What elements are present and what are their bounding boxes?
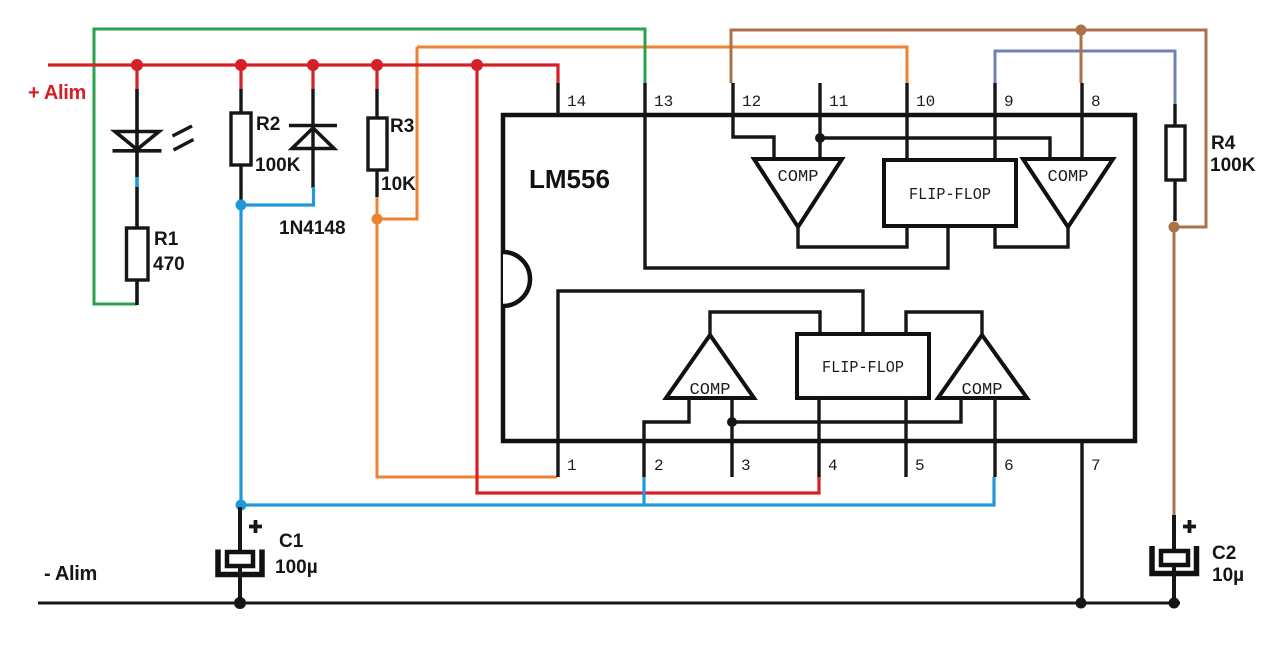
- wire pin 3 branch to comp D base: [732, 398, 961, 422]
- svg-text:C1: C1: [279, 531, 304, 552]
- pin 12 stub: [731, 83, 734, 115]
- svg-text:11: 11: [829, 93, 848, 111]
- svg-text:12: 12: [742, 93, 761, 111]
- wire black R4 bottom: [1173, 180, 1176, 221]
- svg-text:COMP: COMP: [962, 381, 1003, 400]
- comparator B (top right): [1023, 159, 1113, 227]
- wire brown R4 bottom to C2: [1173, 227, 1176, 517]
- wire blue bottom bus to pin 6: [241, 477, 994, 505]
- wire black R1 bottom to green: [135, 280, 139, 305]
- node red junction LED: [131, 59, 143, 71]
- wire black C2 top: [1172, 515, 1176, 552]
- pin 3 stub: [730, 441, 733, 477]
- wire internal pin 1 to flip-flop B top: [558, 291, 863, 441]
- pin 5 stub: [904, 441, 907, 477]
- LED cathode bar: [113, 149, 162, 153]
- svg-text:1: 1: [567, 457, 577, 475]
- label C2 plus: [1183, 520, 1196, 533]
- node orange junction: [372, 214, 383, 225]
- pin 2 stub: [642, 441, 645, 477]
- wire flip-flop B to pin 4: [817, 398, 820, 441]
- wire flip-flop A to comp B apex: [995, 226, 1068, 247]
- wire black R3 bottom: [375, 170, 378, 197]
- wire red drop to pin 4: [477, 65, 819, 493]
- wire black C1 bottom: [238, 566, 242, 603]
- svg-text:100µ: 100µ: [275, 557, 318, 578]
- node red junction drop: [471, 59, 483, 71]
- svg-text:R2: R2: [256, 114, 280, 135]
- wire black R2 bottom: [239, 165, 242, 203]
- wire red stub LED: [135, 65, 138, 90]
- svg-text:10µ: 10µ: [1212, 565, 1244, 586]
- resistor R1: [127, 228, 149, 280]
- wire internal pin 11 branch to comp B: [820, 138, 1050, 159]
- wire red stub D1: [311, 65, 314, 90]
- wire black LED to blue tick: [135, 149, 139, 177]
- pin 4 stub: [817, 441, 820, 477]
- pin 7 wire to ground rail: [1080, 441, 1083, 603]
- svg-text:6: 6: [1004, 457, 1014, 475]
- wire blue pin 2 drop: [642, 477, 645, 505]
- svg-text:R4: R4: [1211, 133, 1236, 154]
- svg-text:FLIP-FLOP: FLIP-FLOP: [909, 186, 991, 205]
- flip-flop A box: [884, 160, 1016, 226]
- wire red stub R3: [375, 65, 378, 90]
- capacitor C1 plate: [227, 552, 253, 566]
- pin 9 stub: [993, 83, 996, 115]
- capacitor C2 cup: [1152, 546, 1197, 574]
- svg-text:R3: R3: [390, 116, 414, 137]
- node blue junction C1 top: [236, 500, 247, 511]
- IC U1 LM556 body: [503, 115, 1135, 441]
- wire black R3 top: [375, 89, 378, 119]
- svg-text:1N4148: 1N4148: [279, 218, 346, 239]
- svg-text:C2: C2: [1212, 543, 1236, 564]
- wire flip-flop B to pin 5: [904, 398, 907, 441]
- IC notch: [503, 252, 530, 306]
- resistor R2: [231, 113, 251, 165]
- svg-text:13: 13: [654, 93, 673, 111]
- svg-text:- Alim: - Alim: [44, 563, 97, 585]
- wire black diode through: [311, 89, 314, 188]
- svg-text:470: 470: [153, 254, 185, 275]
- svg-text:9: 9: [1004, 93, 1014, 111]
- node black junction C1 ground: [234, 597, 246, 609]
- svg-text:+ Alim: + Alim: [28, 82, 86, 104]
- node black junction pin 7 ground: [1076, 598, 1087, 609]
- wire orange vertical branch: [377, 47, 417, 219]
- pin 11 stub: [818, 83, 821, 115]
- pin 1 stub: [556, 441, 559, 477]
- wire comp C base to pin 2: [644, 398, 689, 441]
- node brown junction at pin8 drop: [1076, 25, 1087, 36]
- svg-text:10K: 10K: [381, 174, 416, 195]
- wire comp C base to pin 3: [730, 398, 733, 441]
- capacitor C1 cup: [218, 550, 262, 575]
- svg-text:100K: 100K: [1210, 155, 1256, 176]
- wire red +Alim bus: [48, 65, 558, 84]
- wire comp D base to pin 6: [993, 398, 996, 441]
- svg-text:3: 3: [741, 457, 751, 475]
- svg-text:2: 2: [654, 457, 664, 475]
- node black junction pin 11: [815, 133, 825, 143]
- diode D1 1N4148 cathode bar: [289, 124, 337, 128]
- wire black R4 top: [1173, 104, 1176, 127]
- pin 14 stub: [556, 83, 559, 115]
- node black junction C2 ground: [1169, 598, 1180, 609]
- comparator D (bottom right): [938, 335, 1027, 398]
- node red junction R3: [371, 59, 383, 71]
- pin 10 stub: [905, 83, 908, 115]
- svg-text:100K: 100K: [255, 155, 301, 176]
- wire black C2 bottom: [1172, 566, 1176, 603]
- comparator C (bottom left): [666, 335, 754, 398]
- diode D1 triangle: [292, 128, 334, 149]
- wire red stub R2: [239, 65, 242, 90]
- flip-flop B box: [797, 334, 929, 398]
- wire black to R1: [135, 187, 139, 229]
- wire internal pin 9 to flip-flop A: [993, 115, 996, 162]
- wire black C1 top: [238, 507, 242, 552]
- svg-text:8: 8: [1091, 93, 1101, 111]
- wire black LED anode: [135, 89, 139, 149]
- ground rail - Alim: [38, 602, 1180, 605]
- wire comp A apex to flip-flop A: [798, 226, 907, 247]
- wire internal pin 10 to flip-flop A: [905, 115, 908, 162]
- pin 6 stub: [993, 441, 996, 477]
- wire black R2 top: [239, 89, 242, 114]
- wire orange net: R3 bottom to pin 10 and pin 1: [417, 47, 907, 83]
- wire internal pin 12 to comp A: [733, 115, 774, 159]
- svg-text:10: 10: [916, 93, 935, 111]
- svg-text:COMP: COMP: [690, 381, 731, 400]
- pin 8 stub: [1080, 83, 1083, 115]
- wire internal pin 13 to flip-flop A bottom: [645, 115, 948, 268]
- wire green net: +V loop to pin 13 and R1 bottom: [94, 29, 645, 304]
- node black junction pin 3: [727, 417, 737, 427]
- LED light rays: [173, 126, 194, 150]
- wire blue tick segment: [135, 177, 139, 187]
- node red junction R2: [235, 59, 247, 71]
- svg-text:COMP: COMP: [778, 168, 819, 187]
- wire orange down to pin 1: [377, 196, 557, 477]
- svg-text:R1: R1: [154, 229, 179, 250]
- svg-text:LM556: LM556: [529, 164, 610, 194]
- resistor R3: [368, 118, 387, 170]
- node red junction D1: [307, 59, 319, 71]
- svg-text:FLIP-FLOP: FLIP-FLOP: [822, 359, 904, 378]
- wire blue net: R2/D1 to C1 and pins 2,6: [241, 187, 314, 505]
- wire brown pin 8 drop: [1080, 30, 1083, 83]
- comparator A (top left): [754, 159, 842, 227]
- resistor R4: [1166, 126, 1185, 180]
- svg-text:5: 5: [915, 457, 925, 475]
- svg-text:4: 4: [828, 457, 838, 475]
- node brown junction at R4 bottom: [1169, 222, 1180, 233]
- capacitor C2 plate: [1161, 551, 1188, 565]
- pin 13 stub: [643, 83, 646, 115]
- LED D2 symbol: [115, 132, 159, 150]
- label C1 plus: [249, 520, 262, 533]
- wire slate blue net: pin 9 to R4 top: [995, 51, 1175, 106]
- wire internal pin 11 to comp A: [818, 115, 821, 159]
- wire internal pin 8 to comp B: [1080, 115, 1083, 159]
- svg-text:COMP: COMP: [1048, 168, 1089, 187]
- svg-text:14: 14: [567, 93, 586, 111]
- svg-text:7: 7: [1091, 457, 1101, 475]
- wire brown net: pin12 / pin8 / R4 bottom / C2 top: [731, 30, 1206, 227]
- wire comp C apex to flip-flop B: [710, 312, 820, 335]
- node blue junction R2 bottom: [236, 200, 247, 211]
- wire comp D apex to flip-flop B: [906, 312, 982, 335]
